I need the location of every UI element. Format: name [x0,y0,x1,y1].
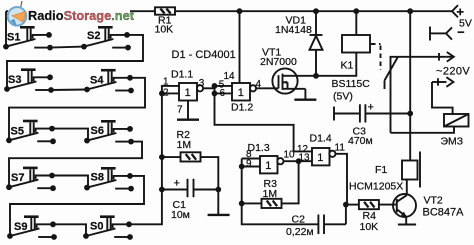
resistor R1 [155,7,175,14]
terminal: -5V connector lead [430,27,452,41]
svg-text:S4: S4 [90,75,104,87]
svg-text:K1: K1 [341,60,354,72]
svg-text:ЭМЗ: ЭМЗ [441,136,464,148]
svg-text:1: 1 [163,77,169,88]
wire: left edge down to S1 common [5,11,7,46]
node: C1 left junction [159,187,165,193]
wire: D1.1 pin 2 stub [162,92,179,94]
wire: S6 NO contact wrap-around to row 4 (S7) [9,142,142,187]
svg-text:D1 - CD4001: D1 - CD4001 [172,49,236,61]
pushbutton S5 [6,120,56,145]
svg-text:9: 9 [246,158,252,169]
node: pin14 junction on top rail [237,8,243,14]
node: R3 feedback junction on D1.3 output [296,158,302,164]
svg-text:1: 1 [317,152,323,164]
pushbutton S2 [81,26,131,51]
svg-text:14: 14 [224,71,236,82]
svg-text:1: 1 [238,87,244,99]
svg-text:470м: 470м [348,135,373,147]
svg-text:S9: S9 [14,221,27,233]
svg-text:S1: S1 [7,31,20,43]
capacitor C2 [318,215,346,235]
relay K1 coil [342,11,370,52]
svg-text:10: 10 [284,150,296,161]
diode VD1 [310,11,323,76]
wire: R4 right lead to VT2 base [379,204,397,206]
wire: S4 NC contact wrap-around to row 3 (S5) [9,78,145,141]
wire: D1.2 pin5 stub [215,85,233,87]
svg-text:1M: 1M [177,139,192,151]
ground at VT2 emitter [398,217,416,225]
node: C1 right junction [215,187,221,193]
capacitor C3 [334,104,410,122]
wire: D1.1 output to D1.2 inputs [203,87,214,89]
node: VD1 anode junction [313,73,319,79]
svg-text:7: 7 [177,105,183,116]
pushbutton S7 [6,167,56,192]
svg-text:0,22м: 0,22м [286,226,314,238]
wire: D1.3 input tie down to R3 and C2 [242,159,319,225]
svg-text:10K: 10K [155,24,174,36]
node: D1.3 pin9 junction [239,164,245,170]
terminal: ~220V upper arrow [439,52,454,62]
svg-text:(5V): (5V) [333,91,353,103]
svg-text:~220V: ~220V [436,66,470,78]
op-amp gate D1.1 [179,83,203,101]
svg-text:1: 1 [185,87,191,99]
svg-text:BC847A: BC847A [423,207,465,219]
svg-text:RadioStorage.net: RadioStorage.net [28,8,135,23]
wire: R3 left lead [242,202,262,204]
svg-text:6: 6 [220,88,226,99]
wire: D1.3 pin9 stub [242,166,260,168]
pushbutton S9 [7,215,57,240]
resistor R3 [262,199,282,208]
wire: 220V return from EMZ bottom to contact branch [391,127,455,133]
node: C3 plus junction on 5V drop [407,111,413,117]
svg-text:S6: S6 [91,125,104,137]
wire: R4 left lead [346,204,359,206]
wire: D1.2 input tie and long link to D1.4 pin 12 [215,86,313,151]
svg-text:S3: S3 [8,74,21,86]
svg-text:3: 3 [199,78,205,89]
gate D1.4 [312,148,336,165]
wire: S5 NC contact to S6 common [52,129,88,141]
pushbutton S1 [3,26,53,51]
pushbutton S6 [84,120,134,144]
terminal: +5V connector chevron [452,5,458,17]
svg-text:10K: 10K [360,221,379,233]
svg-text:S8: S8 [91,172,104,184]
svg-text:1N4148: 1N4148 [275,24,312,36]
transistor VT2 BC847A [393,194,416,217]
relay K1 contact arm [385,57,398,80]
svg-text:D1.4: D1.4 [310,133,332,145]
svg-text:D1.2: D1.2 [231,102,253,114]
svg-text:1M: 1M [263,188,278,200]
svg-text:S7: S7 [11,172,24,184]
wire: S3 NO contact to S4 common [51,89,87,92]
wire: D1.2 pin6 stub [215,92,233,94]
wire: D1.4 output down to R4 [336,154,348,205]
gate D1.3 [260,156,284,173]
node: R2 left junction [159,154,165,160]
svg-text:HCM1205X: HCM1205X [349,181,403,193]
pushbutton S4 [84,69,134,94]
terminal: ~220V lower arrow and lead to EMZ top [432,77,453,114]
svg-text:5V: 5V [459,18,472,30]
svg-text:S0: S0 [90,221,103,233]
node: R4 left junction [343,202,349,208]
svg-text:2: 2 [163,88,169,99]
svg-text:10м: 10м [171,209,190,221]
op-amp gate D1.2 [232,83,256,101]
wire: R2 right lead down to C1 right node [201,157,219,189]
ground at VT1 source [294,89,316,100]
wire: D1.2 output to VT1 gate [256,87,278,89]
svg-text:13: 13 [299,153,311,164]
wire: K1 contact pivot stub [384,81,386,90]
minus of 5V [458,31,465,33]
ground under C1 [217,190,219,215]
wire: S9 NC contact to S0 common [53,224,86,236]
wire: R3 right lead up to D1.3 output [282,161,299,203]
wire: 220V phase lead with contact [391,57,447,133]
wire: C2 right up to R4 node [345,205,347,225]
plus of 5V [457,9,464,16]
wire: VT1 drain line to relay coil [291,53,356,76]
wire: dashed mechanical link of K1 [371,44,381,70]
wire: D1.2 pin 14 from top rail [239,11,241,83]
wire: S1 NO contact to S2 common [50,47,84,48]
wire: main +5V top rail from top-left corner to +5V connector [6,10,155,12]
svg-text:11: 11 [335,143,346,154]
capacitor C1 [162,179,218,197]
svg-text:S5: S5 [11,125,24,137]
svg-text:S2: S2 [87,30,100,42]
wire: S7 NC contact to S8 common [52,176,88,188]
node: D1.1 pin2 junction [159,91,165,97]
wire: +5V drop from rail to buzzer F1 [409,11,411,160]
svg-text:4: 4 [256,79,262,90]
pushbutton S8 [84,167,134,192]
wire: S0 NC contact up to C1 / R2 / D1.1 inputs node [130,86,179,224]
pushbutton S0 [83,215,133,240]
node: R3 left junction [239,201,245,207]
svg-text:+: + [368,102,374,114]
svg-text:C2: C2 [292,214,306,226]
svg-text:BS115C: BS115C [332,78,371,90]
logo RadioStorage.net [8,0,135,26]
resistor R4 [359,200,379,209]
wire: D1.3 output to D1.4 pin13 [284,160,313,162]
node: D1.2 pin5 junction [212,83,218,89]
svg-text:2N7000: 2N7000 [260,56,297,68]
buzzer F1 [402,152,420,196]
node: K1 coil top junction on rail [353,8,359,14]
pushbutton S3 [4,68,54,93]
wire: R2 left lead [162,156,181,158]
wire: D1.3 pin8 stub [242,158,260,160]
wire: S8 NC contact wrap-around to row 5 (S9) [10,176,144,236]
transistor VT1 2N7000 [272,68,305,93]
resistor R2 [181,152,201,161]
svg-text:+: + [174,178,180,190]
svg-text:F1: F1 [375,164,387,176]
node: 5V drop junction on top rail [407,8,413,14]
ground at D1.1 pin 7 [177,101,199,120]
wire: S2 NC contact wrap-around to row 2 (S3) [7,35,143,89]
svg-text:1: 1 [265,160,271,172]
node: D1.2 pin6 junction [212,91,218,97]
svg-text:D1.1: D1.1 [171,69,193,81]
node: VD1 top junction on rail [313,8,319,14]
electromagnetic lock EMZ [444,114,469,127]
svg-text:VT2: VT2 [424,195,443,207]
